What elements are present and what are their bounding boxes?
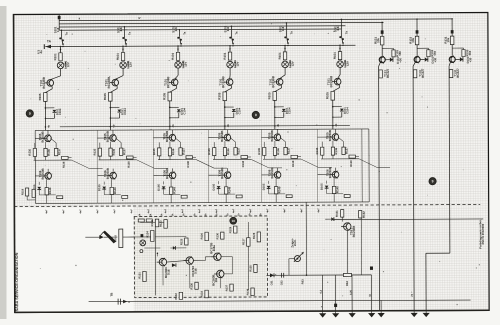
svg-text:R137: R137 (345, 147, 349, 154)
svg-text:C62: C62 (280, 280, 284, 285)
svg-text:BC258B: BC258B (328, 130, 332, 141)
svg-text:R136: R136 (190, 283, 194, 290)
svg-text:BC258B: BC258B (220, 168, 224, 179)
svg-text:instr.: instr. (293, 239, 297, 246)
svg-text:R125: R125 (179, 238, 183, 245)
svg-text:7/16: 7/16 (194, 268, 198, 274)
svg-text:R138: R138 (291, 160, 295, 167)
svg-text:R137: R137 (57, 148, 61, 155)
svg-text:R101: R101 (223, 52, 227, 59)
svg-text:4n7: 4n7 (266, 208, 269, 213)
svg-text:Ta: Ta (64, 32, 68, 36)
svg-text:4n7: 4n7 (113, 209, 116, 214)
svg-text:R129: R129 (228, 226, 232, 233)
svg-text:BC258B: BC258B (270, 130, 274, 141)
svg-text:R138: R138 (241, 160, 245, 167)
svg-text:R137: R137 (122, 148, 126, 155)
svg-text:4n7: 4n7 (181, 208, 184, 213)
svg-text:1-6: 1-6 (56, 27, 60, 32)
svg-text:BC238B: BC238B (166, 76, 170, 89)
svg-text:R63: R63 (301, 279, 305, 284)
svg-text:1-6: 1-6 (336, 26, 340, 31)
svg-text:R148: R148 (277, 186, 281, 193)
svg-text:Ta: Ta (182, 31, 186, 35)
svg-text:12V: 12V (291, 61, 295, 66)
svg-text:4n7: 4n7 (79, 209, 82, 214)
svg-text:1-6: 1-6 (281, 26, 285, 31)
svg-text:R105: R105 (162, 93, 166, 100)
svg-text:BC327: BC327 (421, 68, 425, 78)
svg-text:4n7: 4n7 (96, 209, 99, 214)
svg-text:BC258B: BC258B (328, 167, 332, 178)
svg-text:Ta: Ta (127, 32, 131, 36)
svg-text:R127: R127 (241, 238, 245, 245)
svg-text:BC238B: BC238B (221, 75, 225, 88)
svg-text:C104: C104 (58, 108, 62, 115)
svg-text:R124: R124 (145, 231, 149, 238)
svg-text:R148: R148 (227, 186, 231, 193)
svg-text:4n7: 4n7 (215, 208, 218, 213)
svg-text:D105: D105 (320, 183, 324, 190)
svg-text:4n7: 4n7 (130, 209, 133, 214)
svg-text:R148: R148 (48, 187, 52, 194)
svg-text:C104: C104 (345, 107, 349, 114)
svg-text:R123: R123 (159, 220, 163, 227)
svg-text:R131: R131 (137, 272, 141, 279)
svg-text:10k: 10k (411, 37, 415, 42)
svg-text:R148: R148 (335, 186, 339, 193)
svg-text:D105: D105 (97, 184, 101, 191)
svg-text:1-6: 1-6 (174, 27, 178, 32)
svg-text:BC258B: BC258B (165, 168, 169, 179)
svg-text:R135: R135 (93, 148, 97, 155)
svg-text:BC327: BC327 (386, 68, 390, 78)
svg-text:12V: 12V (129, 62, 133, 67)
svg-text:12V: 12V (184, 62, 188, 67)
svg-text:560: 560 (398, 51, 402, 56)
svg-text:1-6: 1-6 (226, 27, 230, 32)
svg-text:TA: TA (47, 39, 52, 43)
svg-text:7/16: 7/16 (167, 269, 171, 275)
svg-text:R148: R148 (113, 187, 117, 194)
svg-text:R105: R105 (38, 93, 42, 100)
svg-text:BC258B: BC258B (106, 131, 110, 142)
svg-text:4n7: 4n7 (300, 208, 303, 213)
svg-text:4b: 4b (335, 123, 338, 126)
svg-text:R130: R130 (215, 232, 219, 239)
svg-text:BC258B: BC258B (41, 168, 45, 179)
svg-text:R105: R105 (103, 93, 107, 100)
svg-text:R135: R135 (207, 148, 211, 155)
svg-text:4n7: 4n7 (283, 208, 286, 213)
svg-text:4a: 4a (39, 50, 43, 54)
svg-text:4n7: 4n7 (147, 209, 150, 214)
svg-text:9: 9 (432, 179, 434, 183)
svg-text:BC327: BC327 (456, 68, 460, 78)
svg-text:R138: R138 (349, 160, 353, 167)
svg-text:4n7: 4n7 (232, 208, 235, 213)
svg-text:BC238B: BC238B (329, 75, 333, 88)
svg-text:R105: R105 (325, 92, 329, 99)
svg-text:R135: R135 (257, 147, 261, 154)
svg-text:4n7: 4n7 (62, 209, 65, 214)
svg-text:R137: R137 (182, 148, 186, 155)
svg-text:C104: C104 (237, 107, 241, 114)
svg-text:4b: 4b (112, 124, 115, 127)
svg-text:R136: R136 (47, 149, 51, 156)
svg-text:C104: C104 (182, 108, 186, 115)
svg-text:R161: R161 (335, 210, 339, 217)
svg-text:R134: R134 (246, 288, 250, 295)
svg-text:R128: R128 (252, 232, 256, 239)
svg-text:BC258B: BC258B (165, 131, 169, 142)
svg-text:560: 560 (433, 50, 437, 55)
svg-text:R135: R135 (315, 147, 319, 154)
svg-text:10k: 10k (376, 38, 380, 43)
svg-text:R101: R101 (171, 52, 175, 59)
svg-text:R162: R162 (362, 211, 366, 218)
svg-text:10k: 10k (446, 37, 450, 42)
svg-text:116a: 116a (212, 245, 216, 252)
svg-text:BC238B: BC238B (352, 225, 356, 238)
svg-text:4b: 4b (227, 124, 230, 127)
svg-text:C104: C104 (123, 108, 127, 115)
svg-text:560: 560 (468, 50, 472, 55)
svg-text:R105: R105 (267, 92, 271, 99)
svg-text:R101: R101 (53, 53, 57, 60)
svg-text:4n7: 4n7 (164, 208, 167, 213)
svg-text:BC238B: BC238B (271, 75, 275, 88)
svg-text:R136: R136 (171, 148, 175, 155)
svg-text:+30: +30 (398, 58, 402, 63)
svg-text:D105: D105 (262, 183, 266, 190)
svg-text:R64: R64 (345, 281, 349, 286)
svg-text:Ta: Ta (344, 31, 348, 35)
svg-text:Ta: Ta (289, 31, 293, 35)
svg-text:10: 10 (232, 219, 236, 223)
svg-text:12V: 12V (346, 61, 350, 66)
svg-text:R119: R119 (21, 188, 25, 195)
svg-text:R105: R105 (217, 92, 221, 99)
svg-text:R135: R135 (28, 148, 32, 155)
svg-text:+30: +30 (433, 57, 437, 62)
svg-text:R133: R133 (200, 291, 204, 298)
svg-text:4n7: 4n7 (198, 208, 201, 213)
svg-text:R122: R122 (150, 219, 154, 226)
svg-text:TB: TB (110, 293, 114, 297)
svg-text:D105: D105 (157, 184, 161, 191)
svg-text:4b: 4b (277, 123, 280, 126)
svg-text:C104: C104 (287, 107, 291, 114)
svg-text:R136: R136 (226, 148, 230, 155)
svg-text:R136: R136 (276, 148, 280, 155)
svg-text:116: 116 (214, 277, 218, 282)
svg-text:R101: R101 (333, 52, 337, 59)
svg-text:BC258B: BC258B (41, 131, 45, 142)
svg-text:Ta: Ta (234, 31, 238, 35)
svg-text:Krist: Krist (113, 235, 117, 242)
svg-text:12V: 12V (236, 61, 240, 66)
svg-text:P60 W 201/9080: P60 W 201/9080 (481, 223, 485, 244)
svg-text:9: 9 (255, 113, 257, 117)
svg-text:R137: R137 (237, 147, 241, 154)
svg-text:BC258B: BC258B (220, 131, 224, 142)
svg-text:0,25: 0,25 (350, 290, 353, 296)
svg-text:R137: R137 (287, 147, 291, 154)
svg-text:R138: R138 (127, 161, 131, 168)
svg-text:BC258B: BC258B (270, 167, 274, 178)
svg-text:6,3: 6,3 (320, 289, 323, 293)
svg-text:1-6: 1-6 (119, 27, 123, 32)
svg-text:R137: R137 (225, 284, 229, 291)
svg-text:4n7: 4n7 (249, 208, 252, 213)
svg-text:R136: R136 (112, 148, 116, 155)
svg-text:R135: R135 (152, 148, 156, 155)
svg-text:BC238B: BC238B (42, 76, 46, 89)
svg-text:R101: R101 (278, 52, 282, 59)
svg-text:R138: R138 (186, 161, 190, 168)
svg-text:C61: C61 (270, 280, 274, 285)
svg-text:12V: 12V (66, 62, 70, 67)
svg-text:4n7: 4n7 (317, 208, 320, 213)
svg-text:R135: R135 (248, 265, 252, 272)
svg-text:R126: R126 (200, 233, 204, 240)
svg-text:R101: R101 (116, 53, 120, 60)
svg-text:4b: 4b (172, 124, 175, 127)
svg-text:BC238B: BC238B (107, 76, 111, 89)
svg-text:R136: R136 (334, 147, 338, 154)
svg-text:D105: D105 (212, 183, 216, 190)
svg-text:R132: R132 (174, 293, 178, 300)
svg-text:R148: R148 (172, 187, 176, 194)
svg-text:9: 9 (29, 112, 31, 116)
svg-text:4b: 4b (47, 124, 50, 127)
svg-text:4n7: 4n7 (45, 209, 48, 214)
svg-text:+30: +30 (468, 57, 472, 62)
svg-text:R138: R138 (62, 161, 66, 168)
svg-text:BC258B: BC258B (106, 168, 110, 179)
